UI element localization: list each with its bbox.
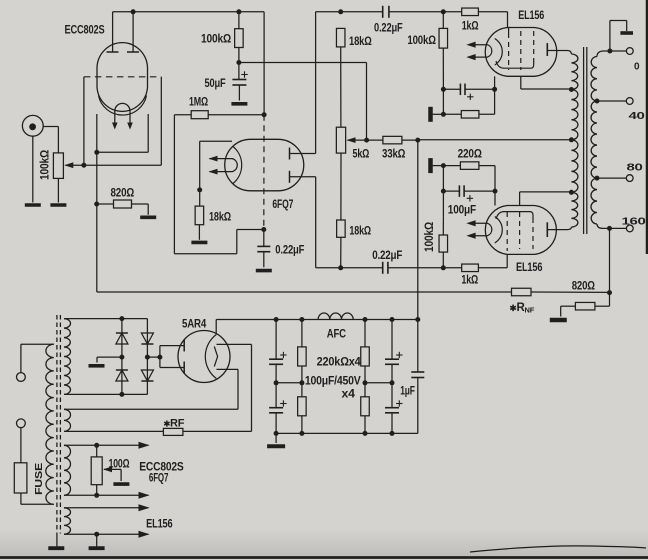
svg-text:100kΩ: 100kΩ	[424, 222, 436, 252]
svg-text:ECC802S: ECC802S	[65, 23, 105, 37]
svg-text:820Ω: 820Ω	[572, 281, 595, 293]
svg-text:6FQ7: 6FQ7	[149, 473, 168, 485]
svg-text:100kΩ: 100kΩ	[201, 33, 231, 45]
svg-text:FUSE: FUSE	[33, 463, 45, 495]
svg-text:0: 0	[634, 62, 640, 73]
svg-text:1kΩ: 1kΩ	[462, 21, 479, 33]
svg-text:0.22μF: 0.22μF	[374, 23, 403, 35]
svg-text:40: 40	[629, 111, 646, 122]
svg-text:18kΩ: 18kΩ	[349, 226, 371, 238]
svg-text:✱RF: ✱RF	[164, 417, 185, 429]
svg-text:50μF: 50μF	[205, 78, 226, 90]
svg-text:0.22μF: 0.22μF	[275, 244, 304, 256]
svg-text:100Ω: 100Ω	[109, 459, 130, 471]
svg-text:5AR4: 5AR4	[182, 319, 207, 331]
svg-text:ECC802S: ECC802S	[139, 461, 184, 473]
svg-text:100μF/450V: 100μF/450V	[305, 376, 361, 388]
svg-text:1kΩ: 1kΩ	[461, 275, 478, 287]
svg-text:x4: x4	[342, 389, 356, 401]
svg-text:1MΩ: 1MΩ	[189, 97, 208, 109]
svg-text:220Ω: 220Ω	[458, 148, 482, 160]
svg-text:220kΩx4: 220kΩx4	[317, 356, 362, 368]
svg-text:1μF: 1μF	[400, 386, 415, 398]
svg-text:100μF: 100μF	[448, 205, 476, 217]
svg-text:5kΩ: 5kΩ	[353, 149, 370, 161]
svg-text:18kΩ: 18kΩ	[349, 36, 372, 48]
svg-text:820Ω: 820Ω	[111, 187, 135, 199]
svg-text:18kΩ: 18kΩ	[209, 212, 231, 224]
svg-text:160: 160	[622, 217, 647, 228]
svg-text:EL156: EL156	[516, 262, 542, 274]
svg-text:80: 80	[627, 163, 644, 174]
svg-text:6FQ7: 6FQ7	[272, 199, 293, 211]
svg-text:100kΩ: 100kΩ	[40, 150, 52, 180]
svg-text:100kΩ: 100kΩ	[407, 35, 435, 47]
svg-text:33kΩ: 33kΩ	[382, 149, 405, 161]
svg-text:EL156: EL156	[518, 10, 544, 22]
svg-text:AFC: AFC	[327, 329, 346, 341]
svg-text:0.22μF: 0.22μF	[372, 250, 402, 262]
